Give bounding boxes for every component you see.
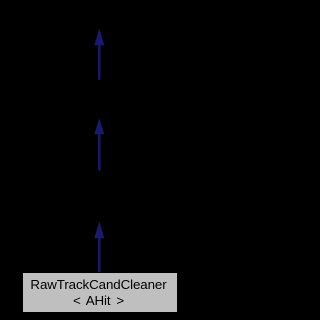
wire: bottom inheritance arrow shaft <box>98 237 100 273</box>
arrowhead: top inheritance arrow <box>94 29 104 46</box>
arrowhead: bottom inheritance arrow <box>94 221 104 238</box>
arrowhead: middle inheritance arrow <box>94 118 104 134</box>
wire: middle inheritance arrow shaft <box>98 133 100 170</box>
node RawTrackCandCleaner< AHit > (class box) <box>22 272 178 313</box>
wire: top inheritance arrow shaft <box>98 44 100 80</box>
